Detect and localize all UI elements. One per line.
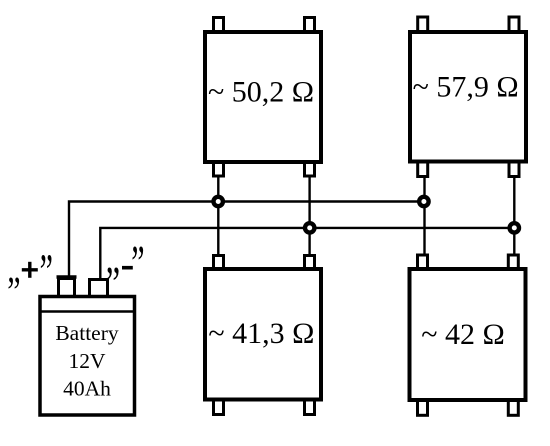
resistor R2 ~57,9 Ohm [410,32,526,162]
node junction B [419,197,428,206]
resistor R3 ~41,3 Ohm [205,269,321,400]
resistor R3 pins [214,256,315,415]
svg-text:”: ” [131,237,144,293]
resistor R4 pins [418,255,519,415]
svg-text:~ 41,3 Ω: ~ 41,3 Ω [208,317,314,350]
node junction D [510,223,519,232]
svg-text:”: ” [40,245,53,301]
svg-text:„: „ [106,230,121,284]
svg-text:~ 57,9 Ω: ~ 57,9 Ω [413,71,519,104]
node junction A [214,197,223,206]
resistor R1 pins [214,18,315,177]
resistor R2 pins [418,17,519,177]
battery negative terminal post [90,280,108,297]
node junction C [305,223,314,232]
wire R1 right pin to R3 right pin [308,176,310,256]
wire R2 right pin to R4 right pin [513,176,515,255]
svg-text:40Ah: 40Ah [63,377,111,401]
wire + bus (battery plus to upper horizontal bus) [69,202,424,278]
battery BT1 12V 40Ah [40,297,135,416]
label plus terminal [7,245,53,301]
wire - bus (battery minus to lower horizontal bus) [100,228,514,279]
resistor R1 ~50,2 Ohm [205,32,321,162]
resistor R4 ~42 Ohm [410,269,526,400]
svg-text:„: „ [7,245,20,293]
svg-text:~ 42 Ω: ~ 42 Ω [421,318,505,351]
battery positive terminal post [57,277,77,297]
svg-text:12V: 12V [68,349,106,373]
label minus terminal [106,230,145,292]
svg-text:~ 50,2 Ω: ~ 50,2 Ω [208,76,314,109]
wire R1 left pin to R3 left pin [217,176,219,256]
wire R2 left pin to R4 left pin [423,176,425,255]
svg-text:Battery: Battery [55,321,119,345]
